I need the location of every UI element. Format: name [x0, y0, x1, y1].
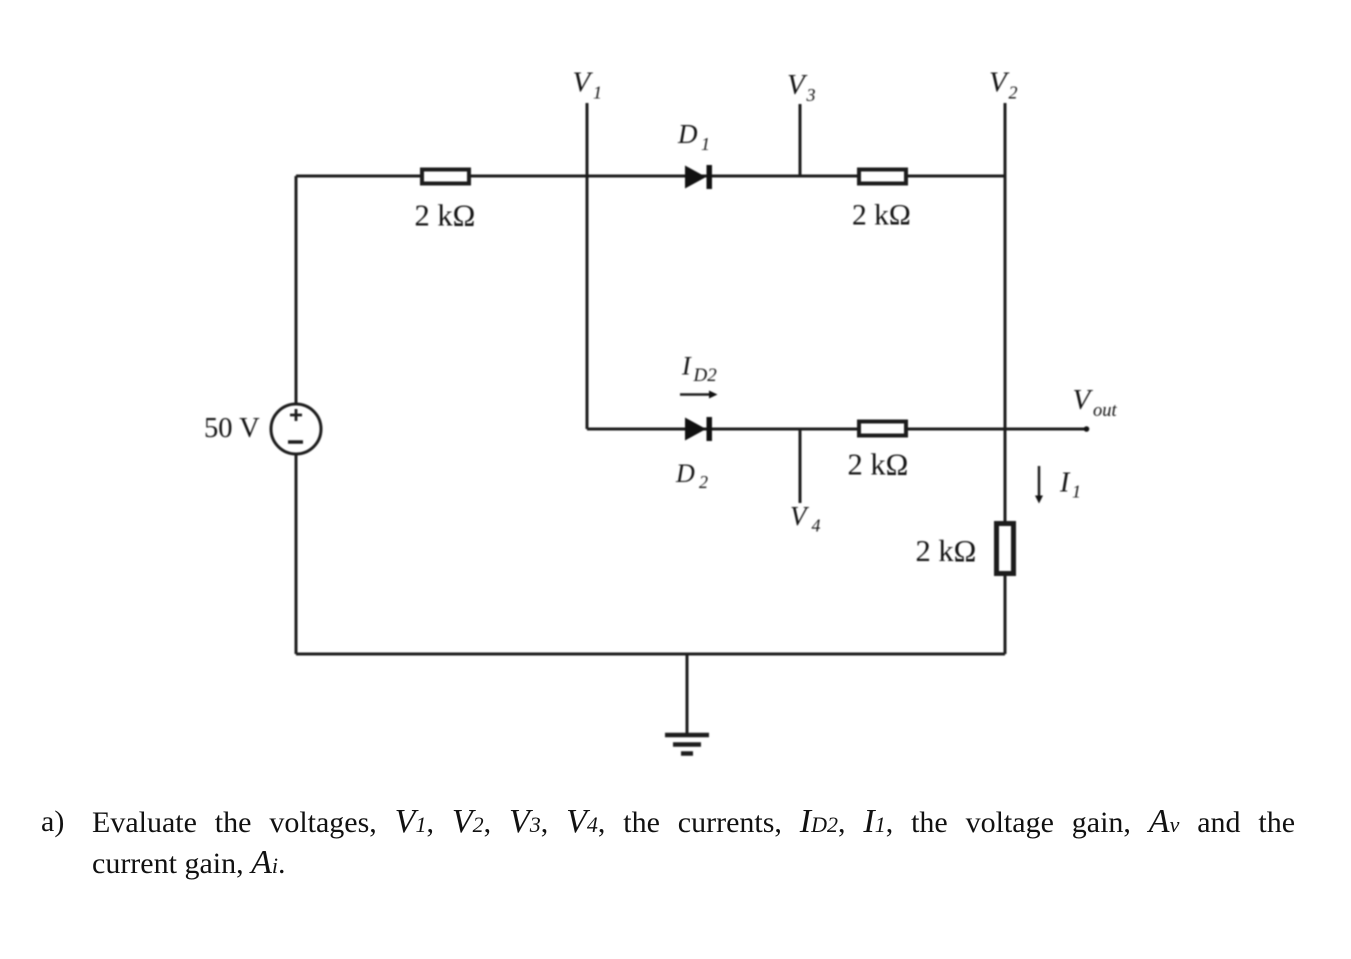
svg-text:V: V	[790, 501, 810, 531]
svg-text:2: 2	[699, 472, 708, 492]
svg-text:4: 4	[812, 516, 821, 536]
svg-text:D: D	[677, 119, 698, 149]
svg-text:2 kΩ: 2 kΩ	[916, 534, 977, 568]
svg-text:3: 3	[806, 85, 816, 105]
svg-text:out: out	[1093, 401, 1118, 421]
svg-text:1: 1	[593, 83, 602, 103]
svg-text:D: D	[675, 459, 695, 488]
svg-text:2 kΩ: 2 kΩ	[852, 200, 911, 232]
svg-text:I: I	[1059, 468, 1071, 499]
svg-text:2: 2	[1009, 83, 1018, 103]
svg-text:V: V	[573, 67, 594, 99]
svg-text:2 kΩ: 2 kΩ	[415, 199, 476, 233]
svg-text:I: I	[681, 352, 692, 381]
svg-text:V: V	[989, 67, 1010, 99]
svg-text:2 kΩ: 2 kΩ	[848, 448, 909, 482]
svg-text:D2: D2	[693, 365, 718, 386]
svg-text:V: V	[787, 69, 808, 101]
svg-text:1: 1	[1072, 482, 1081, 502]
svg-text:50 V: 50 V	[204, 413, 260, 444]
svg-text:1: 1	[701, 134, 710, 154]
svg-text:V: V	[1073, 384, 1094, 416]
